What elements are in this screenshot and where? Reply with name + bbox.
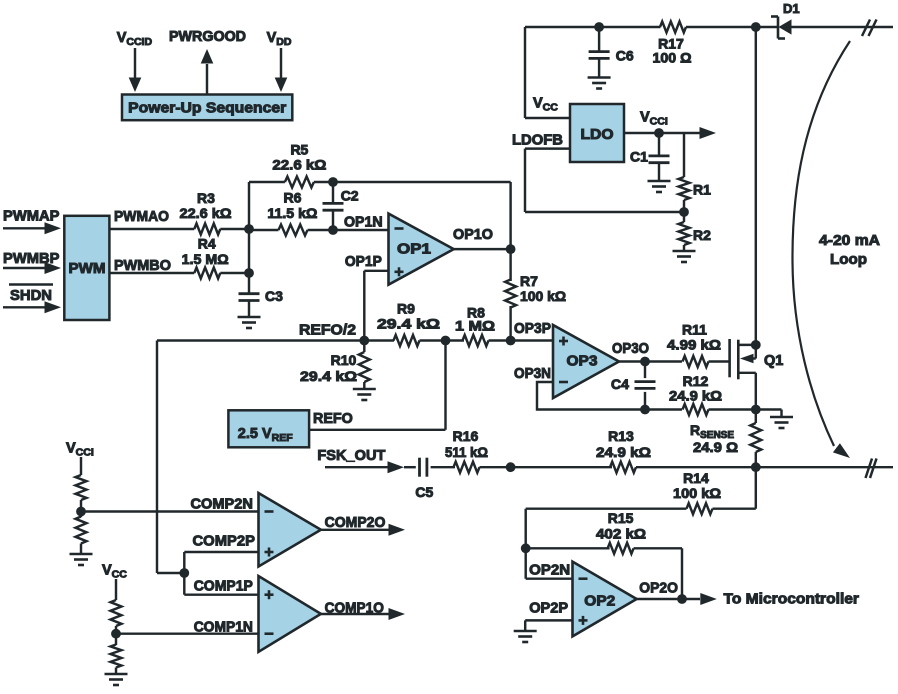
svg-text:COMP2P: COMP2P [193,533,256,550]
svg-text:R6: R6 [284,190,302,206]
svg-text:OP2O: OP2O [639,580,678,597]
svg-text:PWMAP: PWMAP [3,208,60,225]
svg-text:100 Ω: 100 Ω [653,50,692,66]
svg-text:C6: C6 [616,48,634,64]
svg-text:R13: R13 [608,428,634,444]
svg-text:OP1P: OP1P [345,253,382,270]
svg-text:1 MΩ: 1 MΩ [455,318,495,334]
svg-text:OP3N: OP3N [514,365,551,382]
svg-text:4.99 kΩ: 4.99 kΩ [667,337,721,353]
svg-text:OP3P: OP3P [514,320,551,337]
svg-text:LDO: LDO [581,126,614,143]
svg-text:C4: C4 [611,376,629,392]
svg-text:OP2N: OP2N [529,562,570,579]
svg-text:R11: R11 [682,322,707,338]
svg-text:PWRGOOD: PWRGOOD [169,29,246,45]
svg-text:R16: R16 [453,428,479,444]
svg-text:OP3: OP3 [567,354,598,370]
svg-text:C3: C3 [265,288,283,304]
svg-text:402 kΩ: 402 kΩ [596,526,646,542]
svg-text:R7: R7 [520,273,538,289]
svg-text:11.5 kΩ: 11.5 kΩ [267,205,317,221]
svg-text:REFO: REFO [313,410,353,427]
svg-text:REFO/2: REFO/2 [299,322,356,339]
svg-text:D1: D1 [783,1,800,16]
svg-text:511 kΩ: 511 kΩ [445,444,488,460]
svg-text:OP2: OP2 [584,594,615,610]
svg-text:COMP1P: COMP1P [194,578,253,595]
svg-text:R9: R9 [397,301,415,317]
svg-text:OP3O: OP3O [612,340,649,357]
svg-text:4-20 mA: 4-20 mA [819,233,881,249]
svg-text:LDOFB: LDOFB [512,132,563,149]
svg-text:24.9 Ω: 24.9 Ω [693,439,738,455]
svg-text:COMP2O: COMP2O [325,514,386,531]
svg-text:R3: R3 [197,190,215,206]
svg-text:100 kΩ: 100 kΩ [673,485,721,501]
svg-text:Q1: Q1 [764,353,783,369]
svg-text:SHDN: SHDN [10,287,52,304]
svg-text:C5: C5 [415,484,433,500]
svg-text:OP2P: OP2P [529,600,568,617]
svg-text:PWMAO: PWMAO [114,208,169,225]
svg-text:22.6 kΩ: 22.6 kΩ [272,157,326,173]
svg-text:1.5 MΩ: 1.5 MΩ [182,251,229,267]
svg-text:R1: R1 [693,182,711,198]
svg-text:PWM: PWM [69,261,106,277]
svg-text:Loop: Loop [830,252,867,268]
svg-text:24.9 kΩ: 24.9 kΩ [596,444,651,460]
svg-text:PWMBO: PWMBO [114,257,171,274]
svg-text:Power-Up Sequencer: Power-Up Sequencer [128,101,286,117]
svg-text:29.4 kΩ: 29.4 kΩ [300,368,357,384]
svg-text:OP1: OP1 [397,242,431,258]
svg-text:22.6 kΩ: 22.6 kΩ [180,205,232,221]
svg-text:R15: R15 [608,510,634,526]
svg-text:R14: R14 [683,470,709,486]
svg-text:R5: R5 [290,142,308,158]
svg-text:OP1N: OP1N [344,214,383,231]
svg-text:COMP2N: COMP2N [191,496,253,513]
svg-text:R4: R4 [198,236,216,252]
svg-text:C1: C1 [630,149,648,165]
svg-text:C2: C2 [341,188,359,204]
svg-text:100 kΩ: 100 kΩ [520,288,566,304]
svg-text:R2: R2 [693,227,711,243]
svg-text:OP1O: OP1O [453,226,493,243]
svg-text:R10: R10 [331,352,357,368]
svg-text:FSK_OUT: FSK_OUT [317,447,385,464]
svg-text:To Microcontroller: To Microcontroller [724,592,860,608]
svg-text:24.9 kΩ: 24.9 kΩ [669,388,722,404]
svg-text:29.4 kΩ: 29.4 kΩ [377,316,440,332]
